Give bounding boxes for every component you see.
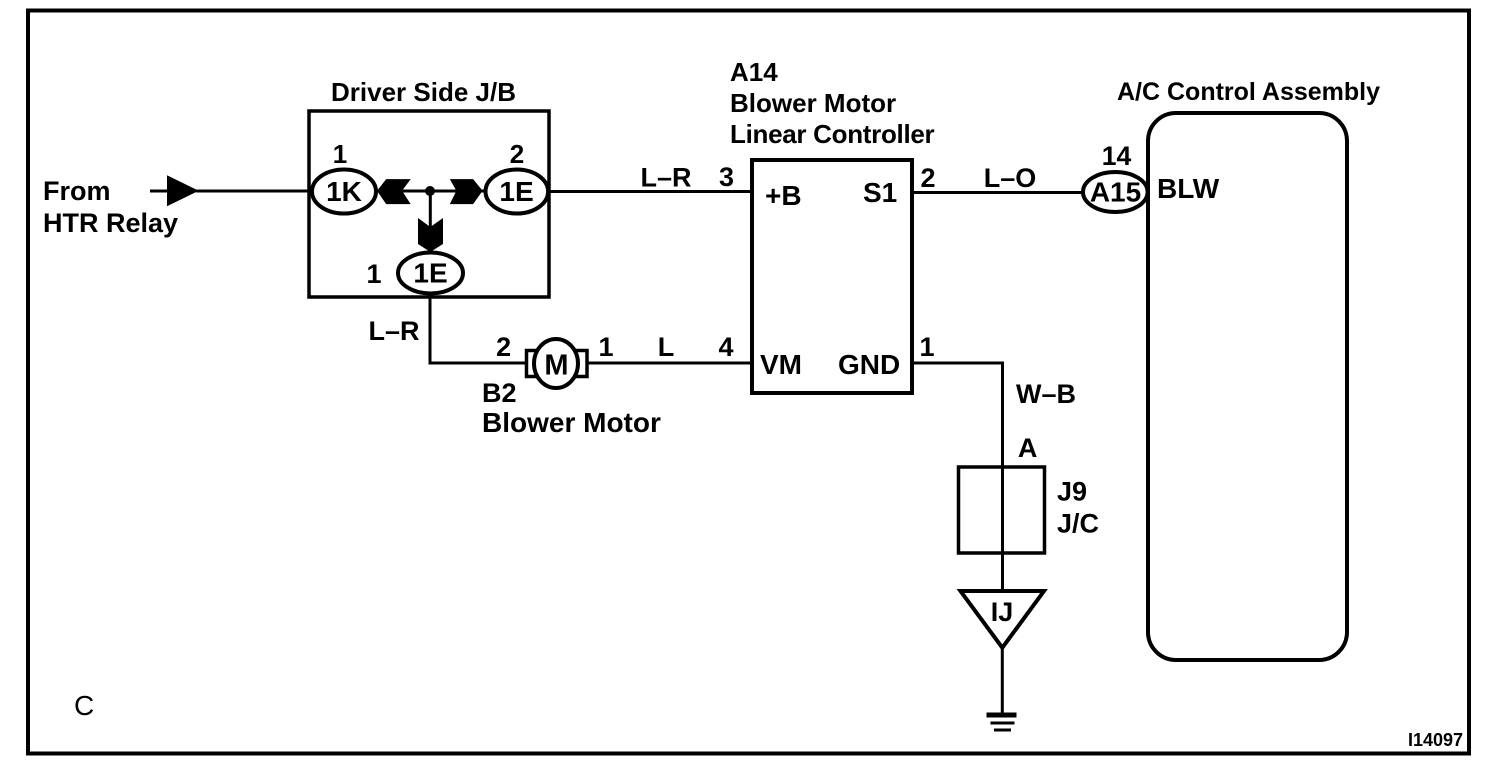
svg-text:2: 2 — [510, 139, 524, 169]
svg-text:Linear Controller: Linear Controller — [730, 119, 935, 149]
svg-text:1E: 1E — [413, 258, 447, 289]
svg-text:I14097: I14097 — [1408, 730, 1463, 750]
connector IJ triangle — [961, 591, 1045, 648]
svg-text:W–B: W–B — [1016, 379, 1076, 409]
connector 1E top — [486, 170, 549, 214]
wire down from junction — [429, 191, 432, 248]
svg-text:B2: B2 — [482, 378, 517, 408]
svg-text:1: 1 — [333, 139, 347, 169]
svg-text:1: 1 — [598, 332, 613, 362]
svg-text:Driver Side J/B: Driver Side J/B — [331, 77, 516, 107]
wire top L-R from J/B to +B — [549, 190, 752, 193]
svg-text:M: M — [544, 350, 568, 382]
A/C Control Assembly box — [1148, 113, 1347, 660]
wire arrow to 1K — [196, 190, 315, 193]
svg-text:1E: 1E — [499, 176, 533, 207]
arrow from HTR relay — [167, 175, 199, 206]
chevron arrow pointing right — [450, 179, 483, 204]
svg-text:+B: +B — [765, 180, 802, 211]
connector 1K — [312, 170, 376, 214]
svg-text:L–O: L–O — [984, 163, 1037, 193]
svg-text:4: 4 — [718, 332, 733, 362]
svg-text:1: 1 — [919, 332, 934, 362]
svg-text:A: A — [1018, 433, 1038, 463]
wire inside J/B between 1K and 1E — [370, 190, 490, 193]
svg-text:A14: A14 — [730, 57, 778, 87]
svg-text:L–R: L–R — [368, 316, 419, 346]
svg-text:C: C — [74, 690, 94, 721]
svg-text:3: 3 — [719, 162, 734, 192]
svg-text:From: From — [43, 176, 111, 206]
svg-text:Blower Motor: Blower Motor — [730, 88, 896, 118]
blower motor terminal left — [527, 351, 539, 377]
svg-text:S1: S1 — [863, 177, 897, 208]
svg-text:VM: VM — [760, 349, 802, 380]
svg-text:GND: GND — [838, 349, 900, 380]
svg-text:BLW: BLW — [1157, 173, 1220, 204]
controller A14 box — [752, 160, 912, 393]
Driver Side J/B box — [309, 111, 549, 297]
chevron arrow pointing left — [377, 179, 411, 204]
wire S1 to A15 — [912, 191, 1086, 194]
svg-text:A/C Control Assembly: A/C Control Assembly — [1117, 78, 1380, 106]
svg-text:Blower Motor: Blower Motor — [482, 407, 661, 438]
wire IJ to ground — [1001, 648, 1004, 714]
svg-text:A15: A15 — [1090, 177, 1141, 208]
svg-text:J/C: J/C — [1057, 509, 1099, 539]
junction connector J9 box — [959, 467, 1045, 553]
wire L-R down from bottom 1E — [430, 294, 528, 364]
junction dot — [425, 186, 435, 196]
svg-text:14: 14 — [1102, 141, 1132, 171]
svg-text:J9: J9 — [1057, 477, 1087, 507]
wire stub before arrow — [150, 190, 170, 193]
svg-text:HTR Relay: HTR Relay — [43, 208, 178, 238]
wire through J9 — [1001, 467, 1004, 591]
svg-text:1: 1 — [366, 259, 381, 289]
connector 1E bottom — [398, 253, 463, 294]
svg-text:IJ: IJ — [991, 597, 1014, 627]
connector A15 — [1083, 172, 1148, 212]
ground symbol — [987, 715, 1017, 730]
svg-text:1K: 1K — [326, 176, 362, 207]
svg-text:2: 2 — [920, 163, 935, 193]
chevron arrow pointing down — [418, 218, 443, 252]
svg-text:L–R: L–R — [640, 163, 691, 193]
blower motor M circle — [534, 339, 578, 388]
svg-text:L: L — [658, 332, 675, 362]
blower motor terminal right — [575, 351, 587, 377]
svg-text:2: 2 — [496, 332, 511, 362]
wire GND to ground — [912, 363, 1003, 467]
wire motor to VM — [587, 362, 752, 365]
